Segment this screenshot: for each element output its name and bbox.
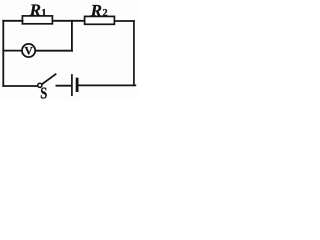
- wire right rail: [133, 21, 135, 85]
- wire branch up to node between R1 and R2: [71, 21, 73, 51]
- voltmeter V body: [22, 44, 35, 57]
- battery cell: short thick negative plate: [76, 79, 79, 91]
- svg-text:R: R: [29, 1, 41, 20]
- switch S pivot circle: [38, 83, 42, 87]
- switch S blade (open): [42, 74, 56, 84]
- wire bottom-right (right rail to battery): [79, 84, 136, 86]
- wire battery to switch: [56, 85, 71, 87]
- resistor R2: [85, 16, 115, 24]
- svg-text:V: V: [25, 46, 34, 58]
- svg-text:2: 2: [102, 8, 107, 19]
- wire left rail: [2, 21, 4, 86]
- wire top-right (R2 to right rail): [115, 20, 134, 22]
- wire top-left (battery+ rail to R1): [3, 20, 22, 22]
- svg-text:1: 1: [41, 8, 46, 19]
- svg-text:R: R: [90, 1, 102, 20]
- wire voltmeter right lead: [36, 50, 72, 52]
- battery cell: long thin positive plate: [71, 75, 73, 95]
- wire top-middle (R1 to R2): [53, 20, 85, 22]
- resistor R1: [22, 16, 52, 24]
- svg-text:S: S: [40, 84, 47, 100]
- wire bottom-left (switch to left rail): [3, 85, 37, 87]
- wire voltmeter left lead: [3, 50, 21, 52]
